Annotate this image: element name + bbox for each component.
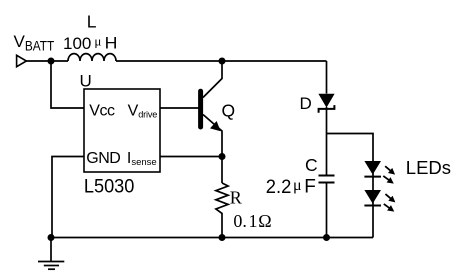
node: VBATT / L / Vcc junction	[48, 58, 55, 65]
LED D2 light arrows	[381, 164, 397, 187]
wire: branch to LED string	[327, 134, 374, 238]
transistor Q collector	[203, 61, 222, 98]
wire: diode to capacitor	[326, 107, 328, 175]
svg-text:H: H	[105, 33, 118, 52]
transistor Q emitter arrow	[210, 121, 221, 131]
inductor L	[68, 54, 116, 61]
wire: GND pin to bottom rail	[52, 157, 84, 238]
svg-text:F: F	[304, 177, 316, 198]
svg-text:μ: μ	[94, 34, 101, 49]
capacitor C	[319, 176, 335, 183]
node: capacitor bottom / rail junction	[323, 234, 330, 241]
transistor Q emitter	[203, 115, 222, 157]
wire: Vcc branch	[51, 61, 84, 108]
svg-text:Vcc: Vcc	[89, 103, 115, 120]
wire: bottom rail	[51, 237, 373, 239]
wire: top rail to diode	[326, 61, 328, 94]
LED D3 light arrows	[382, 192, 398, 215]
svg-text:μ: μ	[293, 177, 302, 194]
node: emitter / Isense junction	[219, 153, 226, 160]
transistor Q base bar	[198, 91, 203, 127]
svg-text:C: C	[305, 155, 318, 175]
LED D3	[364, 190, 381, 206]
resistor R	[216, 183, 228, 238]
svg-text:R: R	[230, 187, 242, 207]
ground	[38, 238, 64, 270]
wire: Vdrive to base	[160, 107, 199, 109]
svg-text:0.1Ω: 0.1Ω	[233, 211, 271, 231]
input terminal V_BATT	[17, 55, 27, 66]
IC U (L5030 controller)	[84, 89, 160, 172]
svg-text:D: D	[300, 94, 312, 113]
node: ground junction	[48, 234, 55, 241]
node: collector / top rail junction	[219, 58, 226, 65]
svg-text:2.2: 2.2	[266, 177, 292, 198]
svg-text:U: U	[80, 72, 92, 91]
wire: Isense pin	[160, 156, 222, 158]
wire: emitter to resistor	[221, 157, 223, 184]
wire: top rail	[116, 60, 327, 62]
diode D (Schottky)	[318, 94, 334, 113]
svg-text:L5030: L5030	[84, 176, 135, 198]
LED D2	[364, 161, 381, 177]
svg-text:100: 100	[63, 34, 91, 53]
svg-text:GND: GND	[86, 150, 120, 167]
node: resistor bottom / rail junction	[219, 234, 226, 241]
svg-text:LEDs: LEDs	[406, 157, 451, 178]
wire: capacitor to rail	[326, 184, 328, 238]
wire: terminal to inductor	[26, 60, 68, 62]
svg-text:Q: Q	[222, 101, 236, 121]
svg-text:L: L	[87, 12, 97, 32]
